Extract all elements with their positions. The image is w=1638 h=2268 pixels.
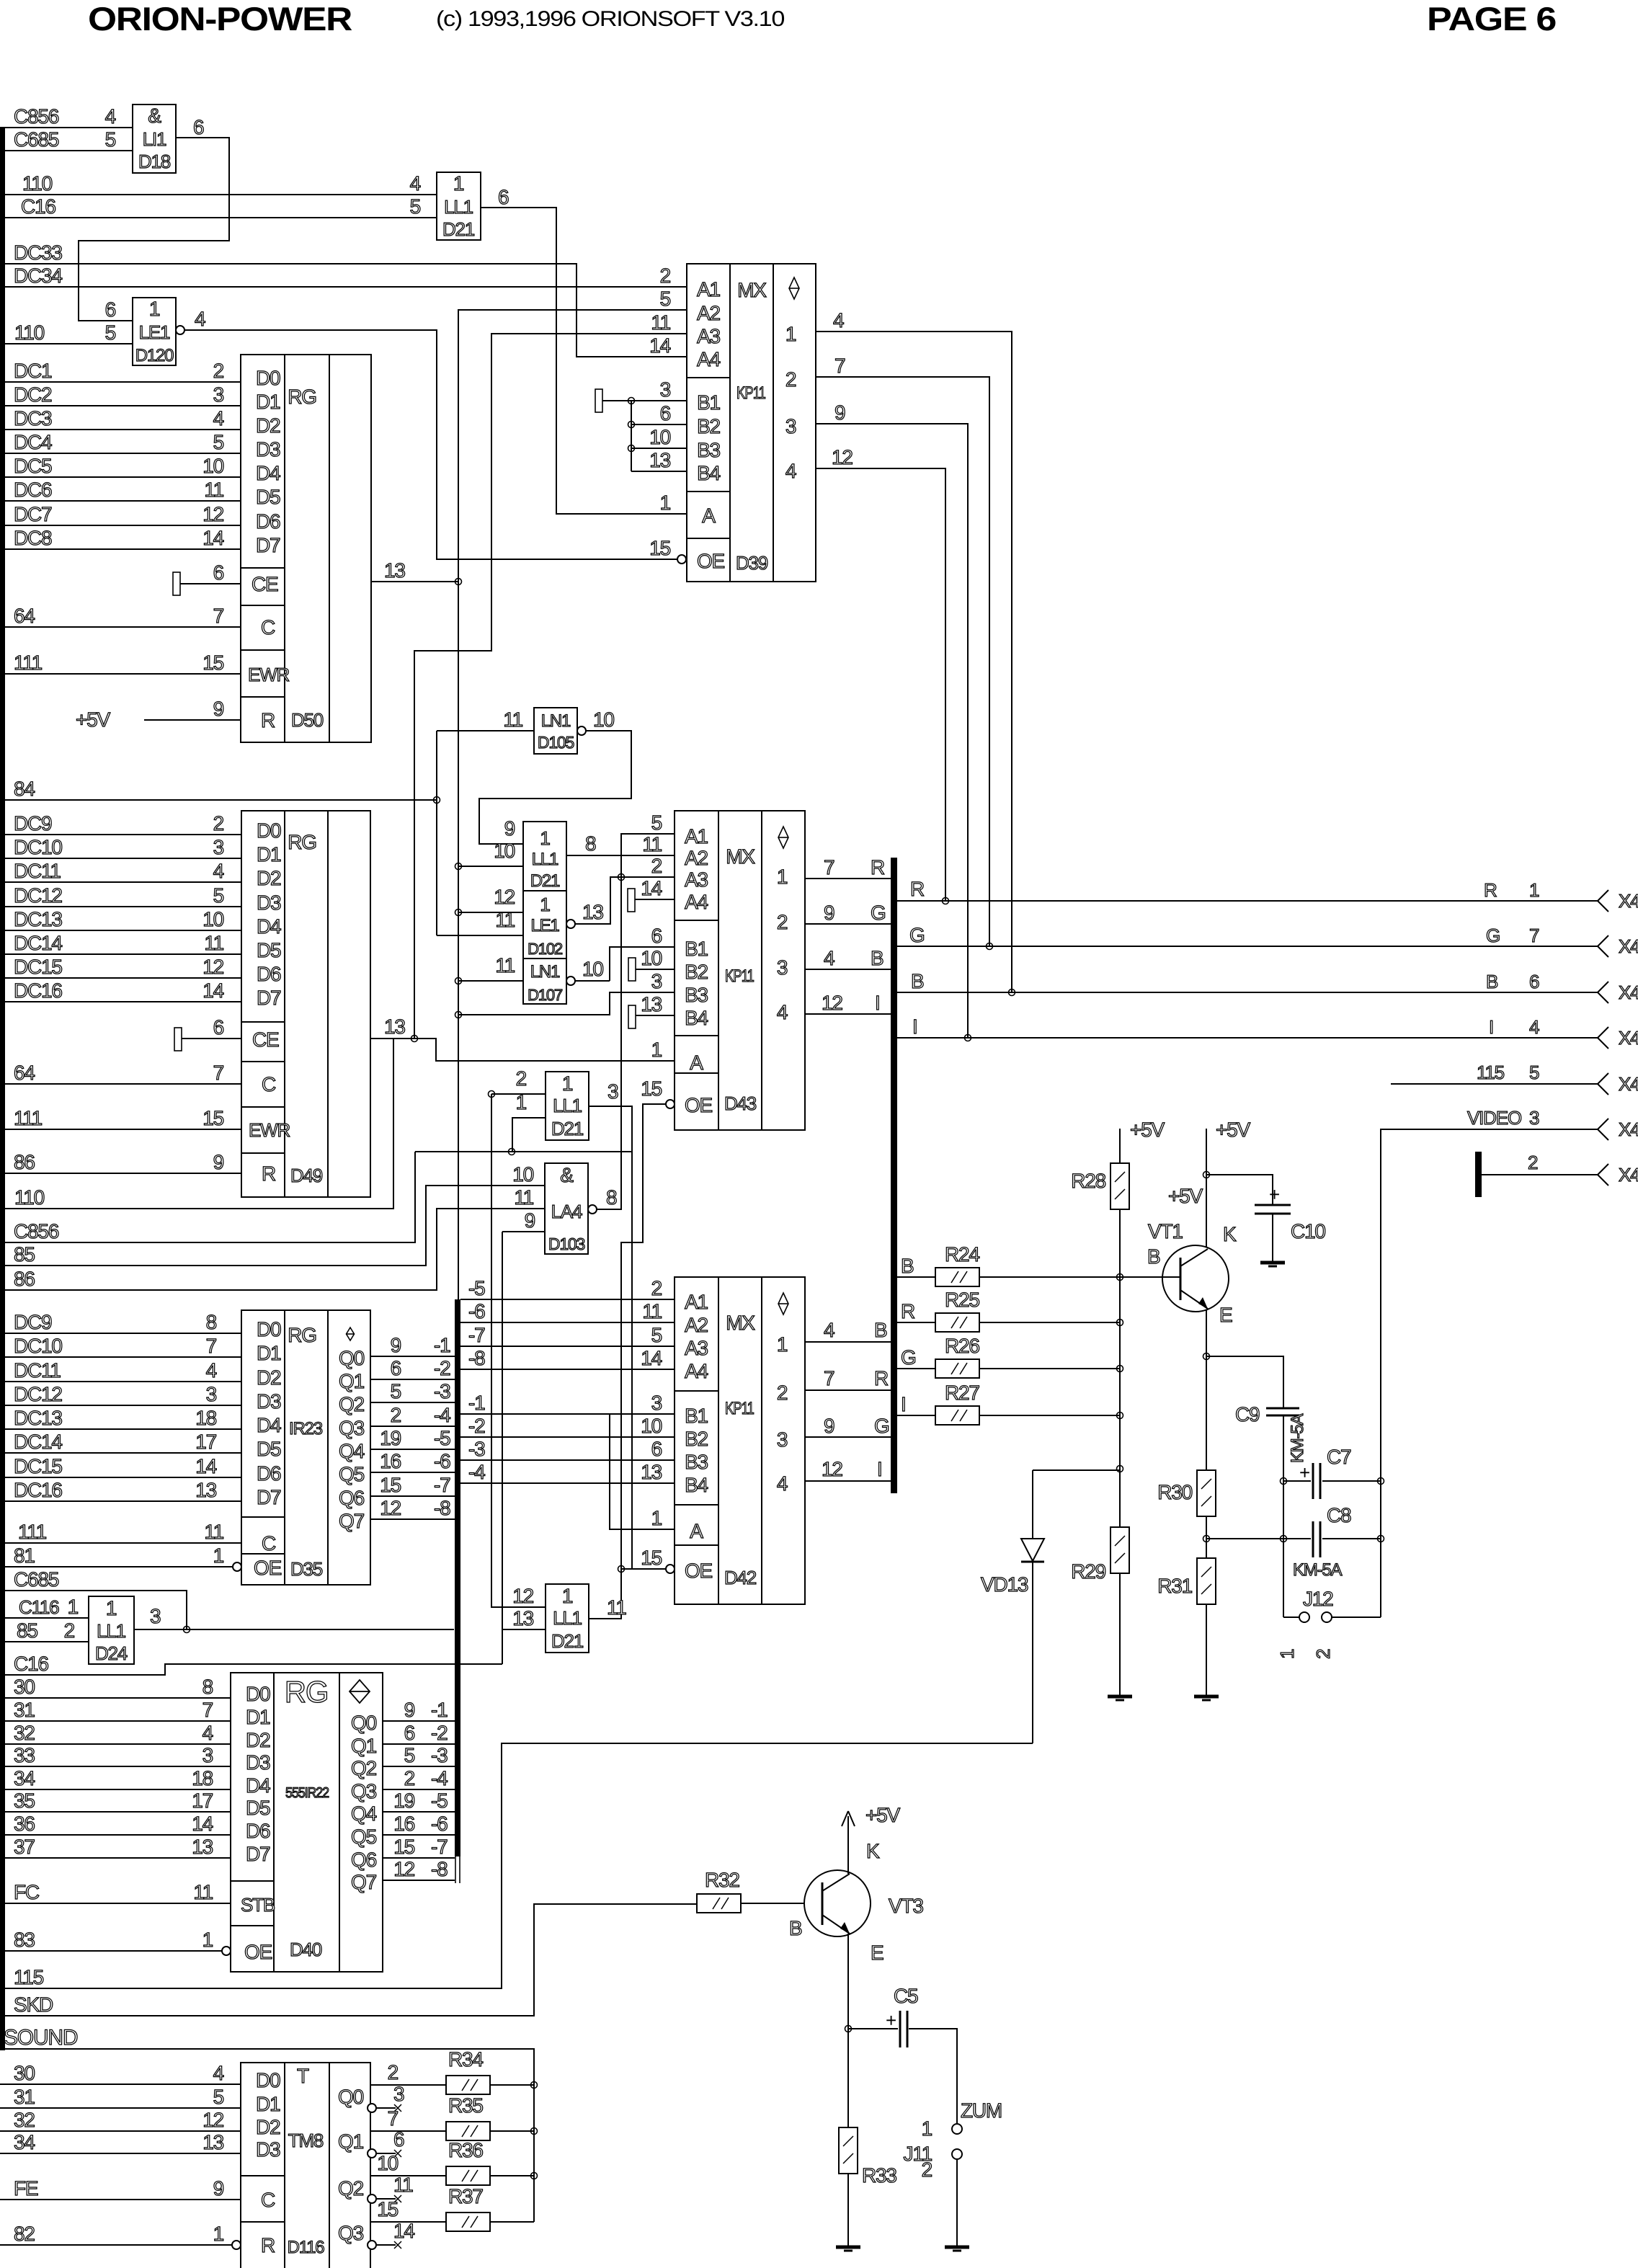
wire VT3 collector to +5V	[847, 1816, 849, 1874]
svg-text:2: 2	[785, 368, 796, 391]
svg-text:D2: D2	[246, 1729, 270, 1751]
svg-text:-6: -6	[468, 1300, 485, 1322]
svg-text:9: 9	[404, 1699, 415, 1721]
resistor R26	[935, 1359, 979, 1378]
wire bus -7 to D42.A3	[460, 1346, 675, 1347]
wire DC9 to D49.D0	[0, 834, 241, 835]
bus bar outline extension R	[459, 1855, 460, 1883]
junction	[455, 863, 462, 870]
svg-text:DC11: DC11	[14, 860, 61, 882]
svg-text:+: +	[1269, 1183, 1279, 1205]
svg-text:TM8: TM8	[288, 2130, 324, 2151]
gate D21c (1 LL1)	[546, 1072, 589, 1140]
wire D49.13 to D43.A	[370, 1039, 675, 1061]
svg-text:D0: D0	[257, 1318, 281, 1340]
svg-text:SKD: SKD	[14, 1993, 53, 2016]
svg-text:R28: R28	[1071, 1170, 1105, 1192]
svg-text:110: 110	[14, 1186, 45, 1209]
J11 pin 1	[952, 2124, 962, 2134]
wire 36 to D40.D6	[0, 1834, 231, 1836]
D39 output-enable diamond	[789, 277, 799, 299]
wire R to X4	[897, 900, 1598, 902]
svg-text:8: 8	[606, 1186, 617, 1209]
svg-text:R30: R30	[1157, 1481, 1192, 1503]
svg-text:3: 3	[393, 2083, 404, 2105]
capacitor C7	[1312, 1463, 1314, 1499]
wire 85 to D24.2	[0, 1641, 89, 1642]
svg-text:5: 5	[660, 288, 671, 310]
wire to C9	[1206, 1356, 1283, 1408]
svg-text:OE: OE	[697, 550, 725, 572]
svg-text:10: 10	[512, 1163, 533, 1186]
svg-text:D5: D5	[246, 1797, 270, 1819]
svg-text:10: 10	[649, 426, 670, 448]
gate D105 (LN1)	[534, 708, 577, 754]
svg-text:7: 7	[834, 355, 845, 377]
svg-text:A: A	[702, 504, 716, 527]
svg-text:D3: D3	[257, 1390, 281, 1413]
svg-text:3: 3	[777, 1428, 788, 1451]
wire to D105.11	[437, 730, 534, 731]
svg-text:1: 1	[562, 1072, 573, 1095]
svg-text:D24: D24	[95, 1642, 128, 1664]
svg-text:E: E	[871, 1942, 883, 1964]
junction R36	[531, 2173, 538, 2179]
svg-text:B1: B1	[697, 391, 720, 414]
wire 83 to D40.OE	[0, 1950, 222, 1952]
svg-text:111: 111	[18, 1521, 47, 1543]
wire D120.4 to D39.OE	[184, 330, 677, 559]
svg-text:OE: OE	[685, 1094, 713, 1116]
svg-text:5: 5	[213, 431, 224, 453]
svg-text:E: E	[1219, 1304, 1232, 1326]
junction C10 branch	[1203, 1172, 1210, 1178]
ground (R29)	[1108, 1695, 1132, 1699]
wire D40.Q6 to bus	[383, 1857, 455, 1859]
resistor R37	[446, 2213, 490, 2231]
jumper at D43.B4	[628, 1005, 636, 1028]
svg-text:6: 6	[651, 925, 662, 947]
wire jumper to D49.CE	[182, 1038, 241, 1039]
resistor R24	[935, 1268, 979, 1286]
svg-text:+: +	[886, 2009, 896, 2031]
VT1 collector lead	[1180, 1249, 1208, 1266]
wire C116 to D24.1	[0, 1617, 89, 1619]
svg-text:4: 4	[1529, 1016, 1539, 1038]
svg-text:-7: -7	[468, 1324, 485, 1346]
no-connect x	[394, 2150, 401, 2157]
svg-text:R: R	[874, 1367, 888, 1389]
capacitor C9	[1266, 1408, 1299, 1410]
svg-text:A: A	[690, 1051, 703, 1074]
svg-text:DC3: DC3	[14, 407, 52, 430]
svg-text:VT3: VT3	[889, 1895, 923, 1917]
wire 84	[0, 799, 437, 801]
wire 31 to D40.D1	[0, 1720, 231, 1722]
svg-text:13: 13	[195, 1479, 216, 1501]
svg-text:D4: D4	[257, 915, 281, 938]
svg-text:B2: B2	[685, 1428, 708, 1450]
svg-text:12: 12	[202, 956, 223, 978]
wire C856 to D18.4	[0, 127, 133, 128]
wire FE to D116.C	[0, 2199, 241, 2200]
svg-text:Q3: Q3	[339, 1417, 365, 1439]
svg-text:1: 1	[68, 1596, 79, 1618]
svg-text:1: 1	[540, 827, 550, 849]
svg-text:1: 1	[777, 866, 788, 888]
junction x1554/1835	[1117, 1320, 1123, 1326]
wire D43.out3 to bus	[805, 969, 891, 970]
VT1 emitter lead	[1180, 1290, 1208, 1309]
resistor R25	[935, 1313, 979, 1332]
wire +5V to R28	[1119, 1129, 1121, 1163]
svg-text:7: 7	[824, 1367, 834, 1389]
svg-text:30: 30	[14, 2062, 35, 2084]
jumper at D50.CE	[173, 572, 180, 595]
svg-text:D7: D7	[256, 534, 280, 556]
wire +5V to D50.R	[144, 719, 241, 721]
wire OE net to D21d.11	[589, 1569, 621, 1619]
svg-text:4: 4	[213, 407, 224, 430]
svg-text:D116: D116	[288, 2238, 325, 2257]
svg-text:5: 5	[213, 884, 224, 907]
svg-text:4: 4	[105, 105, 116, 128]
svg-text:DC16: DC16	[14, 1479, 62, 1501]
transistor VT3	[804, 1870, 871, 1936]
D116 inverted output bubble	[368, 2104, 376, 2112]
svg-text:FC: FC	[14, 1881, 40, 1903]
ground (R33)	[836, 2246, 860, 2249]
svg-text:10: 10	[641, 1415, 662, 1437]
wire 31 to D116.D1	[0, 2107, 241, 2109]
wire D43.out2 to bus	[805, 923, 891, 925]
svg-text:D21: D21	[551, 1118, 584, 1139]
mux D43 (MX KP11)	[675, 811, 805, 1130]
svg-text:86: 86	[14, 1151, 35, 1173]
svg-text:12: 12	[393, 1858, 414, 1880]
svg-text:D3: D3	[246, 1751, 270, 1774]
svg-text:13: 13	[202, 2131, 223, 2153]
svg-text:Q0: Q0	[351, 1712, 377, 1734]
svg-text:R32: R32	[705, 1869, 739, 1891]
wire D42.OE	[621, 1568, 666, 1570]
svg-text:1: 1	[213, 2223, 224, 2245]
svg-text:LL1: LL1	[97, 1620, 126, 1642]
svg-text:-4: -4	[434, 1404, 450, 1426]
wire 85 to D103.10	[0, 1186, 545, 1266]
svg-text:B3: B3	[685, 1451, 708, 1473]
svg-text:19: 19	[393, 1789, 414, 1812]
junction	[455, 910, 462, 916]
svg-text:B3: B3	[685, 984, 708, 1006]
svg-text:A4: A4	[697, 348, 720, 370]
svg-text:X4: X4	[1619, 1073, 1638, 1095]
svg-text:9: 9	[525, 1209, 535, 1232]
svg-text:-1: -1	[434, 1334, 450, 1356]
svg-text:-3: -3	[434, 1380, 450, 1402]
svg-text:2: 2	[388, 2061, 399, 2084]
svg-text:D2: D2	[256, 2116, 280, 2138]
svg-text:13: 13	[649, 449, 670, 471]
stub	[377, 2244, 396, 2246]
wire D35.Q3 to bus	[370, 1426, 455, 1427]
svg-text:IR23: IR23	[289, 1419, 323, 1438]
svg-text:Q2: Q2	[339, 1393, 365, 1415]
svg-text:-8: -8	[431, 1858, 448, 1880]
junction D49.13/x575	[411, 1036, 418, 1042]
svg-text:111: 111	[14, 652, 43, 674]
wire VD13 cathode up	[1032, 1470, 1033, 1539]
svg-text:B: B	[901, 1255, 914, 1277]
svg-text:T: T	[297, 2065, 309, 2087]
wire D50.13 to x636 net	[371, 581, 458, 582]
VT3 emitter lead	[822, 1915, 850, 1934]
svg-text:6: 6	[105, 298, 116, 321]
wire VT1 emitter down	[1206, 1310, 1207, 1470]
wire bus -1 to D42.B1	[460, 1413, 675, 1415]
junction x1554/1964	[1117, 1413, 1123, 1419]
svg-text:+: +	[1299, 1462, 1309, 1483]
svg-text:-6: -6	[431, 1813, 448, 1835]
wire x636 vertical (D39.A2 net)	[458, 309, 459, 1299]
pixel bus bar	[455, 1299, 460, 1856]
wire J12.2 to video net	[1332, 1616, 1381, 1618]
svg-text:A1: A1	[685, 1291, 708, 1313]
svg-text:B: B	[1147, 1245, 1160, 1268]
svg-text:DC2: DC2	[14, 383, 52, 406]
svg-text:8: 8	[206, 1311, 217, 1333]
svg-text:7: 7	[206, 1335, 217, 1357]
connector X4 pin3	[1598, 1119, 1608, 1129]
svg-text:14: 14	[202, 527, 223, 549]
svg-text:2: 2	[213, 360, 224, 382]
wire 86 to D49.R	[0, 1173, 241, 1174]
svg-text:4: 4	[824, 947, 834, 969]
wire C16 to D21a.5	[0, 217, 437, 218]
D103 output bubble	[588, 1205, 597, 1214]
svg-text:B4: B4	[685, 1474, 708, 1496]
svg-text:6: 6	[1529, 971, 1539, 992]
wire R27 to x1554	[979, 1415, 1120, 1416]
svg-text:R24: R24	[945, 1243, 979, 1266]
connector X4 pin4	[1598, 1027, 1608, 1038]
svg-text:G: G	[871, 902, 886, 924]
svg-text:32: 32	[14, 2109, 35, 2131]
wire 115 up to VD13	[0, 1743, 1033, 1988]
svg-text:C7: C7	[1327, 1446, 1351, 1468]
svg-text:R: R	[871, 856, 884, 879]
svg-text:D1: D1	[256, 391, 280, 413]
wire R29 to ground	[1119, 1573, 1121, 1696]
connector X4 pin2	[1598, 1164, 1608, 1175]
wire 32 to D116.D2	[0, 2130, 241, 2132]
svg-text:3: 3	[150, 1605, 161, 1627]
svg-text:A4: A4	[685, 891, 708, 913]
svg-text:R36: R36	[448, 2139, 483, 2161]
wire DC16 to D35.D7	[0, 1500, 241, 1502]
wire DC3 to D50.D2	[0, 429, 241, 430]
wire 34 to D40.D4	[0, 1789, 231, 1790]
svg-text:10: 10	[377, 2152, 398, 2174]
svg-text:B: B	[871, 947, 883, 969]
svg-text:7: 7	[213, 605, 224, 627]
wire 110 to D120.5	[0, 343, 133, 344]
svg-text:-7: -7	[434, 1474, 450, 1496]
wire D103.8 up to D43.A1/A3	[597, 877, 621, 1209]
wire D42.out1 to bus	[805, 1341, 891, 1343]
svg-text:D102: D102	[528, 940, 563, 958]
svg-text:3: 3	[651, 1392, 662, 1414]
svg-text:DC8: DC8	[14, 527, 52, 549]
svg-text:3: 3	[660, 378, 671, 401]
svg-text:85: 85	[17, 1619, 37, 1642]
svg-text:G: G	[901, 1346, 916, 1369]
svg-text:3: 3	[206, 1383, 217, 1405]
D116 inverted output bubble	[368, 2194, 376, 2203]
svg-text:34: 34	[14, 1767, 35, 1789]
wire bus -5 to D42.A1	[460, 1299, 675, 1300]
svg-text:ZUM: ZUM	[961, 2099, 1002, 2122]
svg-text:12: 12	[832, 446, 853, 468]
wire SOUND to R34-R37	[0, 2049, 534, 2222]
wire D42.out4 to bus	[805, 1480, 891, 1482]
wire to D39.B3	[631, 448, 687, 449]
svg-text:9: 9	[834, 401, 845, 424]
svg-text:4: 4	[824, 1319, 834, 1341]
svg-text:DC15: DC15	[14, 1455, 62, 1477]
wire R35 to SOUND bus	[490, 2130, 534, 2132]
svg-text:DC16: DC16	[14, 979, 62, 1002]
svg-text:4: 4	[833, 309, 844, 332]
svg-text:6: 6	[660, 402, 671, 424]
resistor R31	[1197, 1558, 1216, 1604]
svg-text:C: C	[262, 1532, 276, 1555]
svg-text:64: 64	[14, 1062, 35, 1084]
svg-text:6: 6	[498, 186, 509, 208]
svg-text:K: K	[866, 1840, 880, 1862]
svg-text:14: 14	[641, 1347, 662, 1369]
wire DC9 to D35.D0	[0, 1333, 241, 1334]
svg-text:17: 17	[192, 1789, 213, 1812]
svg-text:A3: A3	[685, 1337, 708, 1359]
wire R31 to ground	[1206, 1604, 1207, 1696]
svg-text:5: 5	[1529, 1062, 1539, 1083]
svg-text:11: 11	[503, 708, 522, 731]
svg-text:6: 6	[404, 1722, 415, 1744]
svg-text:Q5: Q5	[339, 1463, 365, 1485]
svg-text:1: 1	[149, 298, 160, 320]
wire D102.13 up to D43.A3	[575, 877, 675, 924]
svg-text:3: 3	[1529, 1107, 1539, 1129]
no-connect x	[394, 2195, 401, 2202]
wire R34 to SOUND bus	[490, 2084, 534, 2086]
junction C9 branch	[1203, 1353, 1210, 1360]
svg-text:D3: D3	[257, 891, 281, 914]
svg-text:86: 86	[14, 1268, 35, 1290]
junction B3	[628, 445, 635, 452]
svg-text:D21: D21	[442, 218, 475, 240]
svg-text:D0: D0	[257, 819, 281, 842]
svg-text:C685: C685	[14, 1568, 59, 1591]
capacitor C8	[1312, 1521, 1314, 1557]
junction x1554/1899	[1117, 1366, 1123, 1372]
wire 32 to D40.D2	[0, 1743, 231, 1745]
wire C856 riser to D21c.3 net	[0, 1152, 415, 1242]
svg-text:D0: D0	[246, 1683, 270, 1705]
svg-text:1: 1	[651, 1039, 662, 1061]
svg-text:C16: C16	[14, 1653, 48, 1675]
svg-text:31: 31	[14, 1699, 35, 1721]
svg-text:-1: -1	[431, 1699, 448, 1721]
svg-text:PAGE 6: PAGE 6	[1427, 0, 1556, 37]
svg-text:A2: A2	[685, 847, 708, 869]
svg-text:-1: -1	[468, 1392, 485, 1414]
svg-text:64: 64	[14, 605, 35, 627]
svg-text:KP11: KP11	[725, 966, 755, 986]
svg-text:DC4: DC4	[14, 431, 52, 453]
svg-text:15: 15	[649, 537, 670, 559]
wire D39.out4 to R line	[816, 468, 945, 901]
svg-text:2: 2	[64, 1619, 75, 1642]
wire R30-R31	[1206, 1516, 1207, 1558]
wire DC15 to D35.D6	[0, 1477, 241, 1478]
svg-text:A3: A3	[685, 868, 708, 891]
wire x575/x682 up to D39.A3	[414, 334, 687, 1039]
svg-text:34: 34	[14, 2131, 35, 2153]
ground (C10)	[1260, 1261, 1285, 1265]
gate D120 (1 LE1)	[133, 298, 176, 365]
svg-text:7: 7	[824, 856, 834, 879]
junction B/D39	[1009, 990, 1015, 996]
wire to X4 pin2	[1482, 1174, 1598, 1175]
svg-text:8: 8	[202, 1676, 213, 1698]
svg-text:10: 10	[494, 840, 515, 862]
svg-text:D1: D1	[246, 1706, 270, 1728]
svg-text:A1: A1	[685, 825, 708, 848]
svg-text:+5V: +5V	[76, 708, 111, 731]
wire C16 to x697 net	[0, 1664, 502, 1675]
svg-text:15: 15	[641, 1547, 662, 1569]
junction R35	[531, 2128, 538, 2135]
svg-text:11: 11	[642, 1300, 662, 1322]
svg-text:LL1: LL1	[444, 196, 473, 218]
svg-text:11: 11	[393, 2174, 413, 2196]
svg-text:KP11: KP11	[725, 1399, 755, 1418]
svg-text:12: 12	[202, 503, 223, 525]
wire DC8 to D50.D7	[0, 548, 241, 550]
svg-text:3: 3	[651, 970, 662, 992]
wire D39.out1 to B line	[816, 332, 1012, 992]
junction C5 branch	[845, 2026, 852, 2032]
wire D39.out2 to G line	[816, 377, 989, 946]
svg-text:DC11: DC11	[14, 1359, 61, 1382]
svg-text:B2: B2	[685, 961, 708, 983]
svg-text:Q4: Q4	[339, 1440, 365, 1462]
wire D40.Q4 to bus	[383, 1811, 455, 1813]
wire DC11 to D49.D2	[0, 881, 241, 883]
wire 33 to D40.D3	[0, 1766, 231, 1767]
svg-text:B: B	[911, 970, 924, 992]
wire up into D43.A1	[621, 834, 675, 877]
svg-text:-2: -2	[468, 1415, 485, 1437]
svg-text:5: 5	[410, 195, 421, 218]
wire R37 to SOUND bus	[490, 2221, 534, 2223]
wire D35.Q6 to bus	[370, 1495, 455, 1497]
svg-text:10: 10	[582, 958, 603, 980]
svg-text:2: 2	[922, 2158, 932, 2181]
wire base VT1	[1120, 1276, 1180, 1278]
wire 30 to D116.D0	[0, 2084, 241, 2085]
